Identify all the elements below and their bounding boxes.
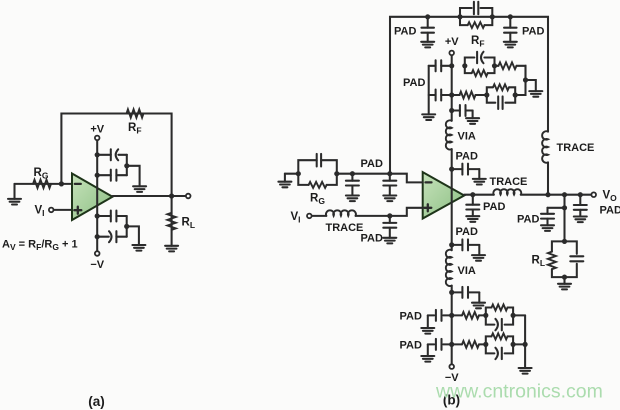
node RG right (b)	[334, 171, 339, 176]
ground -V filter (b)	[519, 368, 532, 374]
ground supply PAD left (b)	[422, 114, 435, 120]
label RF (circuit b)	[471, 35, 485, 49]
wire trace to non-inverting (b)	[356, 208, 423, 216]
inductor VIA supply bottom (b)	[446, 250, 452, 286]
label PAD supply left (b)	[403, 77, 425, 89]
resistor +V RC box 1 (b)	[472, 70, 488, 76]
label (a)	[88, 394, 105, 409]
node +V tap D (b)	[449, 167, 454, 172]
resistor RG (circuit b)	[309, 182, 327, 188]
wire +V bypass to ground (a)	[127, 166, 140, 187]
node output PAD right junction (b)	[578, 192, 583, 197]
ground PAD feedback right (b)	[504, 42, 517, 48]
node -V right vertical row2 (b)	[523, 342, 528, 347]
svg-text:(a): (a)	[88, 394, 105, 409]
wire RL parallel box (b)	[552, 241, 577, 283]
ground input PAD 2 (b)	[383, 196, 396, 202]
node RG left (b)	[296, 171, 301, 176]
label RL (circuit a)	[182, 217, 196, 231]
capacitor RF parallel (b)	[474, 2, 478, 15]
label PAD below op-amp (b)	[456, 226, 478, 238]
label VO (b)	[603, 190, 618, 204]
ground input PAD 1 (b)	[346, 196, 359, 202]
wire +V RC box 2 (b)	[476, 87, 516, 102]
node -V row1 tap (b)	[449, 313, 454, 318]
inductor TRACE output (b)	[493, 189, 521, 195]
capacitor PAD feedback left (b)	[421, 17, 434, 42]
node -V bypass tap 2 (a)	[95, 234, 100, 239]
wire supply PAD left vertical (b)	[428, 66, 430, 115]
node -V row2 tap (b)	[449, 342, 454, 347]
label PAD feedback left (b)	[394, 26, 416, 38]
resistor +V RC box 2 (b)	[493, 84, 509, 90]
node +V tap B (b)	[449, 92, 454, 97]
node RF left (b)	[457, 14, 462, 19]
label +V (circuit b)	[445, 36, 459, 48]
svg-text:PAD: PAD	[456, 226, 478, 238]
label TRACE input (b)	[326, 222, 364, 234]
svg-text:+V: +V	[90, 124, 104, 136]
label VIA supply bottom (b)	[458, 265, 476, 277]
capacitor PAD at VO (b)	[574, 195, 587, 217]
ground -V tap C (b)	[472, 303, 485, 309]
svg-text:VIA: VIA	[458, 265, 476, 277]
node +V bypass junction (a)	[124, 163, 129, 168]
node RL box bottom (b)	[562, 275, 567, 280]
wire row A corner (b)	[517, 66, 526, 80]
wire VI to trace (b)	[312, 215, 326, 217]
wire output (a)	[113, 195, 189, 197]
terminal VI (circuit b)	[307, 214, 312, 219]
node -V row1 box right (b)	[510, 313, 515, 318]
capacitor input PAD 1 (b)	[346, 174, 359, 196]
node -V tap C (b)	[449, 290, 454, 295]
wire supply rail lower (b)	[451, 286, 453, 364]
node input PAD 1 (b)	[350, 171, 355, 176]
capacitor -V RC box 4 (b)	[495, 348, 501, 360]
svg-text:PAD: PAD	[517, 214, 539, 226]
svg-text:PAD: PAD	[400, 311, 422, 323]
label TRACE output (b)	[490, 176, 528, 188]
resistor RL (circuit b)	[548, 252, 556, 270]
wire VI to non-inverting input	[54, 209, 72, 211]
resistor -V series row1 (b)	[452, 312, 486, 319]
node -V row1 box left (b)	[483, 313, 488, 318]
wire RG parallel box (b)	[298, 160, 337, 185]
svg-text:−V: −V	[90, 259, 104, 271]
resistor RF (circuit a)	[127, 109, 144, 117]
svg-text:PAD: PAD	[522, 26, 544, 38]
node feedback PAD left (b)	[425, 14, 430, 19]
svg-text:PAD: PAD	[403, 77, 425, 89]
resistor RL (circuit a)	[167, 213, 175, 230]
wire input to inverting input	[15, 183, 73, 185]
svg-text:PAD: PAD	[361, 158, 383, 170]
terminal +V (circuit b)	[449, 51, 454, 56]
svg-text:VIA: VIA	[458, 131, 476, 143]
node -V bypass tap 1 (a)	[95, 213, 100, 218]
label RF (circuit a)	[128, 122, 142, 136]
inductor TRACE feedback right (b)	[542, 131, 548, 163]
ground PAD feedback left (b)	[421, 42, 434, 48]
node output feedback junction (b)	[545, 192, 550, 197]
capacitor supply PAD B (b)	[429, 90, 452, 101]
svg-text:PAD: PAD	[456, 151, 478, 163]
svg-text:PAD: PAD	[400, 340, 422, 352]
node +V row A right (b)	[492, 63, 497, 68]
svg-text:www.cntronics.com: www.cntronics.com	[435, 381, 603, 403]
wire output to RL (b)	[563, 195, 565, 242]
label PAD input 3 (b)	[361, 233, 383, 245]
capacitor +V bypass 2 (a)	[97, 170, 127, 181]
ground -V PAD row2 (b)	[421, 356, 434, 362]
wire inverting input run (b)	[337, 174, 423, 183]
resistor -V series row2 (b)	[452, 341, 486, 348]
op-amp U1 (circuit a)	[72, 174, 113, 221]
terminal VO (b)	[591, 192, 596, 197]
label VI (circuit a)	[35, 205, 45, 219]
label +V (circuit a)	[90, 124, 104, 136]
capacitor input PAD 2 (b)	[383, 174, 396, 196]
ground PAD left of RL (b)	[541, 225, 554, 231]
capacitor -V tap D (b)	[452, 239, 480, 255]
node +V filter ground junction (b)	[523, 77, 528, 82]
wire feedback loop (a)	[61, 114, 171, 197]
resistor -V RC box 4 (b)	[492, 333, 508, 339]
node feedback PAD right (b)	[508, 14, 513, 19]
resistor RG (circuit a)	[33, 180, 51, 188]
node -V bypass junction (a)	[124, 224, 129, 229]
capacitor +V tap D (b)	[452, 164, 480, 179]
capacitor -V RC box 3 (b)	[495, 319, 501, 331]
capacitor supply PAD A (b)	[429, 60, 452, 71]
resistor +V series row B (b)	[452, 92, 476, 99]
ground +V tap C (b)	[466, 118, 479, 124]
capacitor -V tap C (b)	[452, 287, 480, 303]
terminal output (a)	[186, 194, 191, 199]
terminal VI (circuit a)	[49, 208, 54, 213]
label RG (circuit b)	[310, 193, 325, 207]
capacitor -V bypass 2 (a)	[97, 231, 127, 242]
capacitor +V RC box 2 (b)	[498, 96, 502, 109]
node +V tap C (b)	[449, 108, 454, 113]
ground RL (b)	[558, 284, 571, 290]
terminal -V (circuit b)	[449, 364, 454, 369]
resistor RF (circuit b)	[468, 22, 485, 28]
node output RL junction (b)	[562, 192, 567, 197]
wire -V RC box 4 (b)	[486, 336, 513, 353]
svg-text:PAD: PAD	[483, 201, 505, 213]
ground -V tap D (b)	[472, 255, 485, 261]
node RF right (b)	[490, 14, 495, 19]
label -V (circuit a)	[90, 259, 104, 271]
capacitor -V bypass 1 (a)	[97, 211, 127, 237]
wire supply rail mid (b)	[451, 149, 453, 250]
capacitor RL parallel (b)	[570, 256, 583, 261]
ground output PAD (b)	[466, 216, 479, 222]
op-amp U1 (circuit b)	[423, 172, 465, 218]
ground input (b)	[278, 174, 291, 188]
wire output to RL (a)	[171, 196, 173, 246]
inductor VIA supply top (b)	[446, 120, 452, 149]
svg-text:PAD: PAD	[600, 205, 620, 217]
label VI (circuit b)	[291, 211, 301, 225]
node -V row2 box right (b)	[510, 342, 515, 347]
capacitor -V PAD row2 (b)	[428, 339, 452, 356]
svg-text:PAD: PAD	[394, 26, 416, 38]
wire +V RC box 1 (b)	[465, 58, 495, 74]
label (b)	[443, 393, 460, 408]
node RL top tee (b)	[562, 205, 567, 210]
wire output row right (b)	[521, 194, 591, 196]
node +V row B left (b)	[484, 92, 489, 97]
svg-text:PAD: PAD	[361, 233, 383, 245]
node -V tap D (b)	[449, 242, 454, 247]
label RG (circuit a)	[34, 167, 49, 181]
ground (input of circuit a)	[8, 184, 21, 205]
label VIA supply top (b)	[458, 131, 476, 143]
ground -V PAD row1 (b)	[421, 328, 434, 334]
label PAD left of RL (b)	[517, 214, 539, 226]
node output (a)	[169, 193, 174, 198]
node -V row2 box left (b)	[483, 342, 488, 347]
wire -V bypass to ground (a)	[127, 226, 139, 245]
ground RL (a)	[165, 246, 178, 252]
label gain formula (a)	[2, 239, 78, 253]
wire feedback top rail (b)	[390, 17, 548, 195]
resistor -V RC box 3 (b)	[492, 305, 508, 311]
svg-text:TRACE: TRACE	[557, 142, 595, 154]
node +V row A left (b)	[462, 63, 467, 68]
label PAD feedback right (b)	[522, 26, 544, 38]
capacitor +V RC box 1 (b)	[477, 52, 483, 64]
node +V tap A (b)	[449, 63, 454, 68]
wire row2 to right vertical (b)	[513, 343, 525, 345]
terminal -V (circuit a)	[95, 251, 100, 256]
capacitor PAD left of RL (b)	[541, 208, 554, 226]
ground -V bypass (a)	[132, 245, 145, 251]
label PAD row2 (b)	[400, 340, 422, 352]
watermark www.cntronics.com	[435, 381, 603, 403]
node input PAD 2 (b)	[387, 171, 392, 176]
wire -V RC box 3 (b)	[486, 308, 513, 325]
wire -V filter right vertical (b)	[524, 315, 526, 368]
capacitor +V tap C (b)	[452, 105, 473, 118]
capacitor -V PAD row1 (b)	[428, 310, 452, 328]
wire PAD left of RL (b)	[548, 207, 565, 209]
capacitor PAD feedback right (b)	[504, 17, 517, 42]
wire RF parallel box (b)	[460, 8, 492, 25]
node +V bypass tap 2 (a)	[95, 173, 100, 178]
wire row B corner (b)	[515, 66, 525, 95]
capacitor output PAD (b)	[466, 195, 479, 217]
wire +V filter to ground (b)	[526, 80, 536, 91]
capacitor RG parallel (b)	[317, 154, 321, 167]
node +V row B right (b)	[513, 92, 518, 97]
terminal +V (circuit a)	[95, 136, 100, 141]
ground PAD at VO (b)	[574, 217, 587, 223]
wire row A to series resistor (b)	[495, 65, 499, 67]
label PAD row1 (b)	[400, 311, 422, 323]
svg-text:TRACE: TRACE	[490, 176, 528, 188]
node inverting input junction (a)	[59, 181, 64, 186]
label RL (circuit b)	[532, 255, 546, 269]
label PAD output (b)	[483, 201, 505, 213]
label TRACE feedback right (b)	[557, 142, 595, 154]
resistor +V series row A (b)	[499, 62, 517, 69]
ground input PAD 3 (b)	[383, 238, 396, 244]
node output at op-amp (b)	[470, 192, 475, 197]
label PAD at VO (b)	[600, 205, 620, 217]
node RL box top (b)	[562, 239, 567, 244]
ground +V filter (b)	[529, 91, 542, 97]
label -V (circuit b)	[445, 372, 459, 384]
wire supply rail upper (b)	[451, 56, 453, 121]
svg-text:TRACE: TRACE	[326, 222, 364, 234]
node input PAD 3 (b)	[387, 213, 392, 218]
wire supply rail (a)	[96, 141, 98, 251]
ground +V bypass (a)	[133, 186, 146, 192]
wire input ground to RG (b)	[285, 173, 298, 175]
inductor TRACE input (b)	[326, 210, 356, 216]
capacitor +V bypass 1 (a)	[97, 149, 127, 175]
capacitor input PAD 3 (b)	[383, 216, 396, 238]
wire output row left (b)	[464, 194, 494, 196]
ground +V tap D (b)	[473, 179, 486, 185]
node +V bypass tap 1 (a)	[95, 152, 100, 157]
svg-text:+V: +V	[445, 36, 459, 48]
label PAD supply top (b)	[456, 151, 478, 163]
label PAD input (b)	[361, 158, 383, 170]
wire row1 to right vertical (b)	[513, 314, 525, 316]
